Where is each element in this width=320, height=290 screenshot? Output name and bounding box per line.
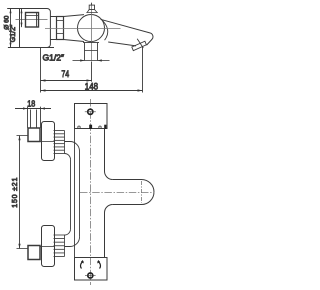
dim74 left extension line: [40, 48, 42, 93]
knob stub: [91, 3, 93, 6]
top bracket screw cross ticks: [85, 111, 96, 113]
svg-text:G1/2″: G1/2″: [10, 24, 17, 42]
lower thread ladder: [54, 235, 65, 257]
dim18 right extension: [40, 107, 42, 128]
dim74 line: [41, 80, 92, 82]
svg-text:74: 74: [61, 68, 69, 79]
main vertical centerline: [90, 99, 92, 285]
dim18 left arrow: [23, 107, 28, 109]
lower elbow inner curve: [65, 229, 71, 235]
pipe left vertical: [70, 160, 72, 230]
nut width top arrow: [21, 9, 23, 14]
upper escutcheon rounded rect: [42, 122, 55, 161]
top bracket small hole left: [78, 126, 80, 128]
dim74 right arrow: [87, 79, 92, 81]
dim148 right arrow: [138, 89, 143, 91]
nut flat line upper: [57, 20, 64, 22]
lower union axis line: [17, 248, 29, 250]
union square inner top line: [26, 15, 39, 17]
dim148 right extension line: [142, 47, 144, 93]
aerator face crossing line: [137, 39, 143, 48]
dia60 dimension line: [10, 9, 12, 48]
svg-text:G1/2″: G1/2″: [43, 53, 65, 62]
dim148 left arrow: [41, 89, 46, 91]
svg-text:150 ±21: 150 ±21: [12, 177, 19, 208]
dim18 right arrow: [41, 107, 46, 109]
body right edge lower: [105, 205, 113, 258]
bottom bracket screw cross ticks: [85, 275, 96, 277]
wall pipe left: [30, 110, 32, 128]
vertical centerline: [91, 3, 93, 61]
dim150 top arrow: [18, 136, 20, 141]
bottom bracket screw circle: [88, 273, 93, 278]
union square inner line right: [36, 13, 38, 28]
dim74 right extension line: [91, 62, 93, 82]
outlet vertical axis tick: [141, 181, 143, 203]
upper elbow outer curve: [65, 142, 80, 152]
lower elbow outer curve: [65, 237, 80, 247]
wall line: [19, 9, 21, 48]
top bracket slot left: [89, 125, 92, 129]
upper pipe line through escutcheon: [40, 141, 55, 143]
lower pipe line through escutcheon: [40, 246, 55, 248]
outlet tube mid line: [85, 50, 98, 52]
svg-text:148: 148: [85, 82, 98, 92]
upper thread ladder: [54, 131, 65, 154]
knob cap: [89, 5, 94, 9]
wall pipe right: [36, 110, 38, 128]
top bracket slot right: [104, 125, 106, 129]
connector cylinder top: [50, 16, 56, 18]
right hook arrow: [98, 262, 101, 269]
upper union axis line: [17, 135, 29, 137]
lower escutcheon rounded rect: [42, 226, 55, 267]
aerator slab: [132, 41, 147, 50]
dim148 line: [41, 90, 143, 92]
upper union nut: [28, 128, 40, 142]
outlet tube flange line: [83, 42, 99, 44]
wall plate outline: [7, 9, 54, 48]
outlet tube right: [97, 43, 99, 61]
g12 right arrow: [98, 60, 110, 62]
knob base: [86, 10, 98, 13]
connector cylinder bottom: [50, 39, 56, 41]
nut width bottom arrow: [21, 23, 23, 28]
dia60 top arrow: [10, 9, 12, 14]
dim18 left extension: [27, 107, 29, 128]
body left edge: [74, 129, 76, 258]
nut flat line lower: [57, 33, 64, 35]
nut width dim line: [21, 9, 23, 27]
dim74 left arrow: [41, 79, 46, 81]
top bracket: [75, 104, 108, 129]
outlet tube left: [84, 43, 86, 61]
dim18 line: [15, 108, 51, 110]
spout root ellipse arc: [101, 19, 108, 40]
spout top edge: [101, 19, 153, 45]
dia60 bottom arrow: [10, 43, 12, 48]
top bracket screw circle: [88, 109, 93, 114]
dim150 bottom arrow: [18, 244, 20, 249]
upper elbow inner curve: [65, 154, 71, 160]
cone bottom: [64, 40, 85, 42]
body right edge upper: [105, 129, 113, 180]
bottom bracket: [75, 258, 108, 281]
inlet axis line: [16, 19, 48, 21]
outlet tube bottom: [113, 204, 142, 206]
outlet tube bottom: [85, 60, 98, 62]
body horizontal centerline: [45, 28, 121, 30]
pipe right vertical: [79, 151, 81, 237]
outlet horizontal centerline: [80, 192, 155, 194]
dim150 line: [19, 136, 21, 249]
union square: [26, 13, 39, 28]
lower union nut: [28, 246, 40, 260]
cone top: [64, 15, 85, 17]
spout bottom edge: [108, 42, 136, 46]
g12 left arrow: [73, 60, 85, 62]
top bracket small hole right: [99, 126, 101, 128]
svg-text:18: 18: [27, 98, 35, 108]
body nut: [57, 17, 64, 40]
outlet tube top: [113, 179, 142, 181]
valve body circle: [78, 15, 105, 42]
outlet cap: [142, 180, 154, 205]
left hook arrow: [81, 262, 84, 269]
